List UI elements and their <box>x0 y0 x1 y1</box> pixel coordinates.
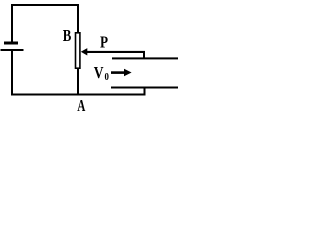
svg-text:0: 0 <box>105 71 109 83</box>
svg-text:P: P <box>100 34 108 52</box>
svg-text:B: B <box>63 28 72 46</box>
svg-text:A: A <box>77 97 86 112</box>
svg-text:V: V <box>94 65 104 82</box>
